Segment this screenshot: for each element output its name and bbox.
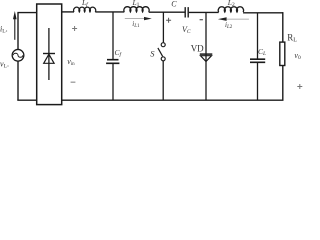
wire top rail capacitor C to L2 with node at diode branch (189, 11, 219, 13)
diode VD triangle (201, 56, 212, 62)
capacitor Cf lower lead (112, 64, 114, 100)
ac source sine wave (13, 53, 23, 57)
current arrow iL shaft (14, 19, 16, 40)
plus sign vin (72, 26, 77, 31)
current arrow iL1 shaft (125, 18, 145, 20)
switch S lower contact circle (161, 57, 165, 61)
capacitor CL upper lead (257, 13, 259, 59)
switch S lower lead (162, 61, 164, 100)
wire top rail box to Lf (62, 11, 74, 13)
switch S upper lead (162, 12, 164, 42)
svg-text:L1: L1 (132, 0, 140, 8)
capacitor Cf upper lead (112, 12, 114, 60)
diode VD cathode bar (200, 53, 213, 55)
inductor Lf (74, 7, 96, 12)
inductor L2 (218, 7, 243, 12)
wire bottom rail left of rectifier (17, 99, 36, 101)
svg-text:C: C (171, 0, 177, 9)
current arrow iL1 head (144, 17, 152, 20)
capacitor Cf plates (106, 60, 119, 64)
switch S blade (158, 48, 163, 56)
rectifier internal diode cathode bar (43, 53, 55, 55)
wire top rail left segment (17, 12, 36, 14)
wire right vertical RL to bottom rail (282, 65, 284, 100)
ac source vL circle (12, 49, 24, 61)
diode VD lead (205, 12, 207, 100)
wire top rail Lf to L1 with node at Cf branch (95, 11, 124, 13)
minus sign vin (71, 81, 76, 83)
current arrow iL head (13, 11, 17, 19)
resistor RL body (280, 42, 285, 65)
current arrow iL2 head (218, 17, 227, 21)
wire right vertical top rail to RL (282, 12, 284, 42)
rectifier internal diode lead (48, 28, 50, 80)
rectifier box (37, 4, 62, 105)
minus sign VC (200, 19, 203, 21)
switch S upper contact circle (161, 43, 165, 47)
wire top rail L2 to top-right corner with node at CL branch (243, 12, 283, 14)
wire bottom rail right of rectifier (62, 99, 284, 101)
capacitor CL plates (250, 59, 265, 62)
plus sign VC (166, 18, 171, 23)
svg-text:L2: L2 (227, 0, 235, 8)
capacitor CL lower lead (257, 63, 259, 100)
inductor L1 (124, 7, 149, 12)
rectifier internal diode triangle (44, 54, 54, 63)
svg-text:VD: VD (191, 44, 204, 54)
wire left vertical from source to top rail (17, 13, 19, 50)
wire top rail L1 to capacitor C with node at switch branch (149, 11, 185, 13)
current arrow iL2 shaft (227, 18, 249, 20)
svg-text:S: S (150, 49, 155, 59)
wire left vertical source bottom to bottom rail (17, 61, 19, 100)
capacitor C plates (185, 7, 188, 17)
plus sign v0 (297, 84, 302, 89)
